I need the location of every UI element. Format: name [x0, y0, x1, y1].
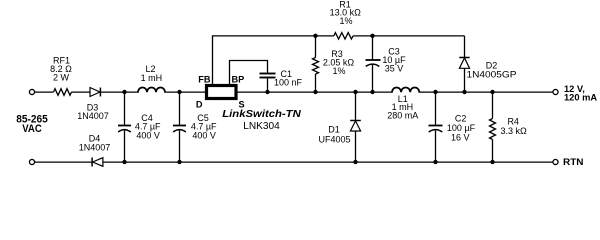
- svg-text:400 V: 400 V: [192, 131, 216, 141]
- wire bottom rail left: [35, 161, 92, 163]
- node C3-bottom: [370, 90, 374, 94]
- wire: [353, 35, 464, 37]
- svg-text:LinkSwitch-TN: LinkSwitch-TN: [222, 109, 301, 120]
- node C1-bottom: [265, 90, 269, 94]
- input voltage label: [16, 114, 48, 136]
- node C2-bottom: [433, 160, 437, 164]
- wire: [72, 91, 91, 93]
- node D2-bottom: [462, 90, 466, 94]
- svg-text:VAC: VAC: [22, 123, 42, 135]
- inductor L1: [393, 91, 418, 93]
- capacitor C4 labels: [135, 113, 161, 141]
- node C4-top: [122, 90, 126, 94]
- node C4-bottom: [122, 160, 126, 164]
- IC U1 LNK304 body: [207, 86, 237, 99]
- diode D1: [350, 92, 361, 163]
- svg-text:FB: FB: [198, 75, 211, 85]
- svg-text:1%: 1%: [339, 16, 352, 26]
- svg-text:280 mA: 280 mA: [387, 111, 418, 121]
- resistor RF1 labels: [50, 56, 72, 83]
- inductor L1 labels: [387, 94, 418, 121]
- capacitor C5 labels: [191, 113, 217, 141]
- svg-text:35 V: 35 V: [385, 64, 404, 74]
- svg-text:LNK304: LNK304: [243, 121, 280, 132]
- svg-text:16 V: 16 V: [451, 133, 470, 143]
- svg-text:RTN: RTN: [563, 157, 584, 167]
- diode D2 labels: [467, 60, 517, 79]
- resistor R3 labels: [323, 49, 355, 76]
- svg-text:400 V: 400 V: [136, 131, 160, 141]
- svg-text:D1: D1: [328, 124, 340, 134]
- diode D3 labels: [77, 103, 109, 122]
- node D1-bottom: [353, 160, 357, 164]
- diode D1 labels: [318, 124, 350, 144]
- input terminal bottom: [29, 159, 34, 164]
- inductor L2: [139, 91, 164, 93]
- IC name labels: [222, 109, 301, 132]
- wire S-line: [236, 91, 553, 93]
- capacitor C5: [173, 92, 186, 163]
- diode D2: [459, 36, 469, 92]
- wire AC top: [35, 91, 54, 93]
- svg-text:D: D: [196, 100, 203, 110]
- capacitor C2: [429, 92, 443, 163]
- resistor R3: [313, 36, 319, 92]
- diode D4 labels: [79, 134, 111, 153]
- capacitor C3: [366, 36, 381, 92]
- resistor R1 labels: [330, 0, 362, 26]
- wire: [100, 91, 206, 93]
- capacitor C1 labels: [274, 69, 303, 88]
- svg-text:BP: BP: [232, 75, 245, 85]
- capacitor C4: [118, 92, 131, 163]
- svg-text:2 W: 2 W: [53, 73, 70, 83]
- svg-text:120 mA: 120 mA: [564, 93, 597, 103]
- node R3-bottom: [313, 90, 317, 94]
- svg-text:UF4005: UF4005: [318, 134, 350, 144]
- capacitor C1: [260, 74, 276, 93]
- svg-text:1N4005GP: 1N4005GP: [467, 69, 517, 79]
- diode D4: [92, 158, 103, 167]
- resistor R1: [334, 33, 353, 39]
- IC pin labels: [196, 75, 245, 110]
- wire bottom rail: [103, 161, 553, 163]
- resistor R4: [490, 92, 496, 163]
- BP pin wire: [230, 61, 268, 85]
- svg-text:1N4007: 1N4007: [77, 111, 109, 121]
- capacitor C2 labels: [447, 113, 476, 142]
- svg-text:R4: R4: [507, 116, 519, 126]
- output terminal RTN: [553, 159, 558, 164]
- node R3-top: [313, 34, 317, 38]
- inductor L2 labels: [141, 64, 163, 83]
- node C2-top: [433, 90, 437, 94]
- svg-text:100 nF: 100 nF: [274, 78, 303, 88]
- diode D3: [90, 88, 100, 97]
- node C5-top: [177, 90, 181, 94]
- resistor R4 labels: [500, 116, 527, 136]
- node D1-top: [353, 90, 357, 94]
- node C5-bottom: [177, 160, 181, 164]
- resistor RF1: [54, 89, 72, 96]
- output label 12V: [564, 84, 597, 103]
- node R4-top: [490, 90, 494, 94]
- capacitor C3 labels: [382, 46, 406, 73]
- svg-text:C2: C2: [455, 113, 467, 123]
- svg-text:1%: 1%: [332, 66, 345, 76]
- svg-text:3.3 kΩ: 3.3 kΩ: [500, 126, 527, 136]
- svg-text:1N4007: 1N4007: [79, 143, 111, 153]
- output terminal 12V: [553, 89, 558, 94]
- FB pin wire: [213, 36, 335, 84]
- node R4-bottom: [490, 160, 494, 164]
- svg-text:S: S: [239, 100, 245, 110]
- node C3-top: [370, 34, 374, 38]
- input terminal top: [29, 89, 34, 94]
- svg-text:1 mH: 1 mH: [141, 73, 163, 83]
